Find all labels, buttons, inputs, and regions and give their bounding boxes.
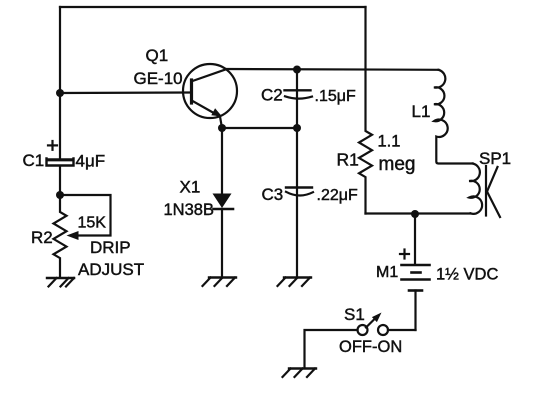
ground X1 — [203, 278, 237, 287]
capacitor C3 — [286, 128, 313, 278]
node C3 top — [293, 124, 301, 132]
resistor R1 — [359, 7, 372, 214]
svg-text:meg: meg — [379, 154, 416, 175]
wire left rail upper — [59, 7, 61, 158]
svg-text:15K: 15K — [78, 215, 107, 232]
capacitor C2 — [285, 70, 313, 129]
svg-text:C2: C2 — [261, 86, 283, 105]
svg-text:OFF-ON: OFF-ON — [339, 338, 402, 356]
switch S1 — [305, 313, 416, 369]
svg-text:DRIP: DRIP — [90, 238, 131, 257]
battery M1 — [402, 214, 430, 330]
inductor L1 — [434, 70, 473, 164]
wire collector rail — [226, 68, 439, 71]
svg-text:.22μF: .22μF — [317, 187, 358, 204]
svg-text:C3: C3 — [262, 185, 284, 204]
label C1 plus — [48, 141, 57, 150]
svg-text:R1: R1 — [337, 150, 359, 170]
svg-text:1N38B: 1N38B — [164, 201, 214, 219]
svg-text:SP1: SP1 — [479, 149, 511, 168]
svg-text:1.1: 1.1 — [378, 133, 401, 151]
wire emitter rail — [222, 127, 297, 129]
svg-text:.15μF: .15μF — [315, 88, 356, 105]
wire left rail mid — [59, 166, 61, 195]
diode X1 — [213, 128, 234, 278]
speaker SP1 — [469, 164, 500, 218]
potentiometer R2 — [54, 195, 111, 278]
svg-text:X1: X1 — [180, 178, 201, 197]
label M1 plus — [400, 250, 409, 259]
svg-text:L1: L1 — [412, 102, 431, 121]
svg-text:4μF: 4μF — [76, 152, 106, 171]
svg-text:S1: S1 — [344, 305, 365, 324]
transistor Q1 — [183, 64, 237, 128]
svg-text:GE-10: GE-10 — [134, 69, 183, 88]
node battery junction — [411, 210, 419, 218]
node base junction — [56, 89, 64, 97]
svg-text:R2: R2 — [31, 228, 53, 247]
ground C3 — [278, 278, 312, 287]
svg-text:Q1: Q1 — [146, 46, 169, 65]
svg-text:C1: C1 — [23, 151, 45, 170]
capacitor C1 — [47, 159, 74, 166]
wire bottom rail — [366, 212, 471, 214]
svg-text:1½ VDC: 1½ VDC — [436, 266, 498, 284]
ground R2 — [47, 278, 74, 287]
wire top rail — [60, 6, 366, 8]
node emitter junction — [218, 124, 226, 132]
svg-text:M1: M1 — [376, 264, 398, 281]
ground S1 — [283, 369, 317, 378]
wire base — [60, 91, 190, 94]
node R2 junction — [56, 191, 64, 199]
node C2 top — [293, 66, 301, 74]
svg-text:ADJUST: ADJUST — [78, 260, 144, 279]
